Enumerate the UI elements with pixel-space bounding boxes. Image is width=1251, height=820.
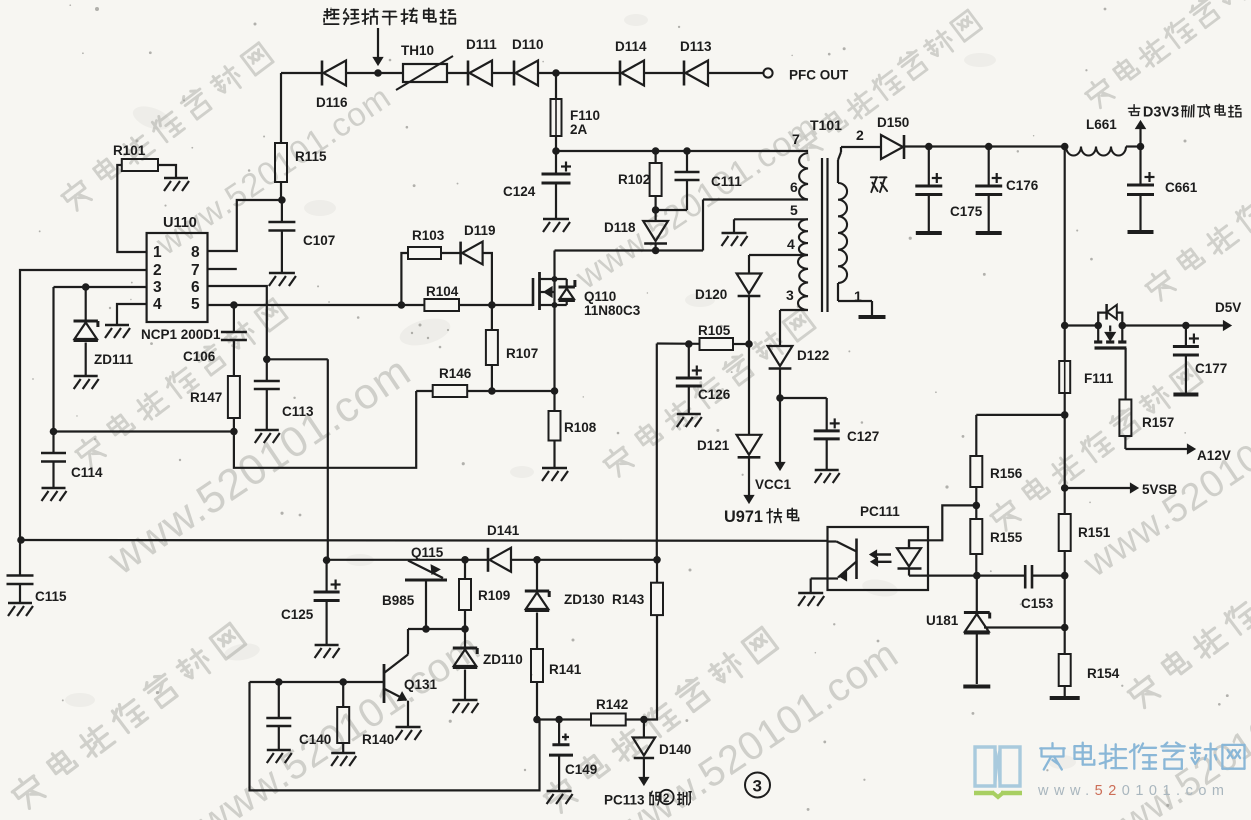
svg-text:D121: D121 [697, 438, 730, 453]
svg-text:C140: C140 [299, 732, 331, 747]
label: dual (CJK) [871, 177, 887, 192]
label: U971 supply (CJK) [724, 508, 799, 526]
wire [640, 615, 657, 723]
wire T101 pin6 lead [703, 200, 808, 251]
resistor R146 [433, 366, 472, 397]
svg-text:R102: R102 [618, 172, 650, 187]
svg-text:R151: R151 [1078, 525, 1111, 540]
resistor R155 [970, 505, 1022, 554]
capacitor C114 [41, 432, 103, 488]
resistor R103 [408, 228, 445, 259]
svg-text:2: 2 [153, 262, 162, 279]
ground [269, 273, 296, 286]
ground [255, 430, 280, 443]
svg-text:D5V: D5V [1215, 300, 1241, 315]
wire [464, 629, 466, 648]
wire [416, 390, 433, 392]
wire [464, 670, 466, 700]
svg-text:VCC1: VCC1 [755, 477, 792, 492]
wire current sense loop [234, 391, 416, 468]
ground [396, 727, 422, 740]
svg-text:www.520101.com: www.520101.com [1037, 783, 1229, 799]
wire pin6 branch [208, 286, 271, 363]
wire aux rail [657, 340, 749, 348]
wire and node [973, 487, 981, 509]
wire VCC1 arrow [755, 398, 792, 492]
ground [164, 178, 189, 191]
svg-text:Q110: Q110 [584, 289, 616, 304]
svg-text:C127: C127 [847, 429, 879, 444]
wire pin3 branch [54, 283, 147, 291]
ground [677, 414, 702, 427]
wire and node Q115 line [323, 556, 488, 564]
wire and node [973, 554, 981, 579]
svg-text:2: 2 [856, 127, 864, 143]
wire R103 branch up [401, 253, 408, 305]
wire Q131 loop to R141 node [250, 682, 540, 790]
svg-text:R155: R155 [990, 530, 1023, 545]
fuse F111 [1059, 361, 1114, 393]
diode D120 [695, 274, 761, 348]
svg-text:R108: R108 [564, 420, 597, 435]
ground [543, 219, 570, 232]
transistor Q110 11N80C3 MOSFET [533, 251, 641, 392]
svg-text:PFC OUT: PFC OUT [789, 68, 849, 83]
resistor R105 [698, 323, 733, 350]
svg-text:U971: U971 [724, 508, 763, 526]
svg-text:11N80C3: 11N80C3 [584, 303, 641, 318]
wire and node [1061, 322, 1099, 330]
svg-text:D113: D113 [680, 39, 712, 54]
svg-text:C175: C175 [950, 204, 983, 219]
capacitor C111 [656, 151, 743, 210]
wire pin5 gate drive line [208, 301, 425, 309]
diode D141 [487, 523, 520, 572]
wire pin4 to ground [117, 304, 147, 324]
diode D110 [512, 37, 544, 86]
svg-text:R103: R103 [412, 228, 445, 243]
resistor R140 [337, 682, 394, 752]
terminal PFC OUT [763, 68, 849, 83]
svg-text:7: 7 [792, 131, 800, 147]
wire [280, 73, 282, 143]
svg-text:4: 4 [787, 236, 795, 252]
diode D111 [466, 37, 497, 86]
svg-text:D141: D141 [487, 523, 520, 538]
svg-text:1: 1 [854, 288, 862, 304]
capacitor C140 [266, 682, 331, 749]
op-amp U110 NCP1200D1 controller [141, 215, 221, 342]
resistor R104 [424, 284, 459, 311]
ground [453, 700, 479, 713]
svg-text:R109: R109 [478, 588, 510, 603]
svg-text:ZD111: ZD111 [94, 352, 134, 367]
diode D114 [615, 39, 647, 86]
svg-text:C125: C125 [281, 607, 314, 622]
svg-text:C107: C107 [303, 233, 335, 248]
capacitor C661 [1127, 147, 1198, 233]
diode D150 [877, 115, 909, 159]
ground [798, 593, 824, 606]
wire pin6 node down to C125/Q115 [267, 359, 328, 560]
wire main 5V feed down [1064, 147, 1066, 326]
svg-text:1: 1 [153, 244, 162, 261]
capacitor C153 [1021, 565, 1054, 611]
wire [85, 343, 87, 376]
svg-text:B985: B985 [382, 593, 415, 608]
svg-text:C114: C114 [71, 465, 103, 480]
wire [558, 720, 560, 745]
ground [331, 753, 356, 766]
resistor R142 [591, 697, 628, 726]
wire PC111 LED cathode to column [928, 574, 1065, 576]
arrow into input line [373, 28, 382, 65]
label: input anti-interference circuit (CJK) [324, 8, 455, 24]
svg-text:PC113: PC113 [604, 793, 645, 808]
wire secondary output rail [904, 143, 1068, 151]
svg-text:C124: C124 [503, 184, 536, 199]
svg-text:4: 4 [153, 296, 162, 313]
diode D118 [604, 210, 668, 254]
wire [511, 556, 661, 564]
resistor R141 [531, 613, 582, 720]
wire pin7 stub [208, 268, 237, 270]
wire U181 ref to column [984, 626, 1065, 628]
ground [267, 750, 292, 763]
wire and junction [346, 69, 403, 77]
diode D140 [633, 738, 692, 759]
resistor R154 [1050, 654, 1120, 698]
wire [85, 287, 87, 321]
svg-text:R141: R141 [549, 662, 582, 677]
svg-text:C177: C177 [1195, 361, 1227, 376]
svg-text:D140: D140 [659, 742, 691, 757]
wire [536, 560, 538, 591]
svg-text:F111: F111 [1084, 371, 1114, 386]
svg-text:R143: R143 [612, 592, 645, 607]
wire arrow to PC113 pin2 [639, 758, 648, 785]
wire [1061, 415, 1069, 492]
capacitor C124 [503, 151, 571, 218]
inductor L661 [1066, 117, 1126, 156]
label: to PC113 pin 2 (CJK) [604, 790, 691, 808]
svg-text:U110: U110 [163, 215, 197, 231]
wire and ground [963, 634, 990, 687]
page marker 3 [745, 773, 770, 798]
svg-text:3: 3 [753, 777, 762, 796]
diode D113 [680, 39, 712, 86]
wire drain to T101 pin6 branch [555, 249, 704, 251]
svg-text:2A: 2A [570, 122, 588, 137]
wire and nodes [408, 625, 469, 633]
resistor R151 [1059, 488, 1111, 576]
svg-text:NCP1 200D1: NCP1 200D1 [141, 327, 221, 342]
svg-text:5: 5 [790, 202, 798, 218]
wire [1061, 326, 1069, 419]
wire [483, 253, 492, 305]
svg-text:ZD110: ZD110 [483, 652, 523, 667]
wire [976, 576, 978, 613]
svg-text:R101: R101 [113, 143, 146, 158]
svg-text:TH10: TH10 [401, 43, 434, 58]
label: to D3V3 forming circuit (CJK) [1128, 104, 1241, 120]
svg-text:C115: C115 [35, 589, 67, 604]
wire [492, 72, 514, 74]
wire [447, 72, 468, 74]
resistor R115 [275, 143, 327, 182]
resistor R102 [618, 151, 662, 214]
wire [158, 165, 176, 177]
zener ZD110 [453, 648, 523, 668]
svg-text:3: 3 [153, 279, 162, 296]
wire to Q110 gate [459, 301, 533, 309]
svg-text:C126: C126 [698, 387, 731, 402]
svg-text:3: 3 [786, 287, 794, 303]
zener ZD130 [525, 591, 605, 611]
svg-text:D3V3: D3V3 [1143, 105, 1179, 121]
arrow to D3V3 circuit [1136, 121, 1145, 147]
wire primary supply to T101 pin7 [556, 147, 808, 155]
wire pin2 to feedback rail [20, 270, 147, 540]
wire [626, 718, 644, 720]
svg-text:8: 8 [191, 244, 200, 261]
svg-text:R140: R140 [362, 732, 394, 747]
svg-text:D119: D119 [464, 223, 496, 238]
svg-text:D114: D114 [615, 39, 647, 54]
capacitor C106 [183, 305, 247, 364]
thermistor TH10 [396, 43, 453, 90]
capacitor C149 [549, 734, 597, 791]
svg-text:C113: C113 [282, 404, 314, 419]
wire T101 pin5 to ground [734, 219, 808, 232]
capacitor C176 [975, 147, 1039, 234]
optocoupler PC111 [811, 504, 928, 592]
wire pin8 to R115/C107 node [208, 200, 282, 251]
wire [644, 72, 684, 74]
capacitor C175 [915, 147, 982, 234]
svg-text:5VSB: 5VSB [1142, 482, 1178, 497]
zener ZD111 [74, 321, 134, 367]
svg-text:Q131: Q131 [404, 677, 438, 692]
wire [748, 344, 750, 435]
wire [467, 387, 558, 395]
svg-text:L661: L661 [1086, 117, 1117, 132]
wire 5VSB arrow [1065, 482, 1178, 497]
ground [42, 488, 67, 501]
resistor R109 [459, 556, 510, 629]
svg-text:D116: D116 [316, 95, 348, 110]
capacitor C107 [268, 200, 335, 272]
capacitor C177 [1173, 326, 1227, 395]
ground [542, 468, 568, 481]
diode D121 [697, 435, 761, 458]
wire feedback column [1061, 572, 1069, 654]
svg-text:R142: R142 [596, 697, 628, 712]
svg-text:6: 6 [191, 279, 200, 296]
svg-text:R105: R105 [698, 323, 731, 338]
svg-text:A12V: A12V [1197, 448, 1231, 463]
svg-text:R156: R156 [990, 466, 1023, 481]
svg-text:D122: D122 [797, 348, 829, 363]
svg-text:F110: F110 [570, 108, 600, 123]
ground [315, 645, 340, 658]
wire aux to feedback line [656, 344, 658, 560]
wire [441, 252, 461, 254]
transistor Q131 [384, 629, 438, 726]
MOSFET sync rectifier (D5V switch) [1094, 304, 1126, 400]
svg-text:C106: C106 [183, 349, 216, 364]
wire pin1 to R101 [117, 165, 146, 252]
wire and node [1126, 143, 1144, 151]
svg-text:7: 7 [191, 262, 200, 279]
ground [547, 791, 573, 804]
svg-text:D111: D111 [466, 37, 497, 52]
capacitor C126 [676, 344, 731, 413]
ground [815, 470, 840, 483]
wire [555, 73, 557, 99]
wire [281, 72, 322, 74]
diode D119 [461, 223, 496, 264]
svg-text:C111: C111 [711, 174, 742, 189]
resistor R101 [113, 143, 158, 171]
fuse F110 2A [551, 99, 601, 137]
svg-text:C149: C149 [565, 762, 597, 777]
svg-text:PC111: PC111 [860, 504, 900, 519]
wire and node [278, 182, 286, 204]
svg-text:U181: U181 [926, 613, 959, 628]
shunt regulator U181 [926, 613, 990, 634]
svg-text:C661: C661 [1165, 180, 1198, 195]
resistor R108 [549, 391, 597, 467]
ground [722, 233, 748, 246]
diode D116 [316, 61, 348, 111]
svg-text:ZD130: ZD130 [564, 592, 605, 607]
wire Q131 base line [250, 678, 385, 686]
transformer T101 (pins 7,6,5,4,3 primary / 2,1 secondary) [786, 117, 886, 317]
svg-text:5: 5 [191, 296, 200, 313]
wire [643, 720, 645, 738]
ground [8, 603, 33, 616]
wire A12V arrow [1125, 436, 1230, 463]
wire and nodes [533, 716, 591, 724]
resistor R107 [486, 305, 538, 395]
svg-text:R107: R107 [506, 346, 538, 361]
wire [708, 72, 764, 74]
wire D5V output arrow [1122, 300, 1241, 330]
resistor R143 [612, 560, 663, 615]
svg-text:2: 2 [663, 793, 669, 805]
svg-text:R104: R104 [426, 284, 459, 299]
transistor Q115 B985 [382, 545, 447, 629]
wire to C127 [780, 398, 827, 431]
svg-text:T101: T101 [810, 117, 842, 133]
capacitor C113 [254, 359, 314, 429]
diode D122 [768, 346, 830, 402]
wire [52, 287, 54, 432]
svg-text:D150: D150 [877, 115, 909, 130]
svg-text:6: 6 [790, 179, 798, 195]
capacitor C125 [281, 560, 341, 644]
wire and junction to F110 [538, 69, 620, 77]
svg-text:R157: R157 [1142, 415, 1174, 430]
svg-text:R115: R115 [295, 149, 327, 164]
wire and node [552, 136, 560, 155]
svg-text:D110: D110 [512, 37, 544, 52]
capacitor C115 [7, 540, 68, 604]
svg-text:C176: C176 [1006, 178, 1039, 193]
wire R156 top feed [976, 414, 1064, 416]
wire Vfb lower link [50, 428, 234, 436]
svg-text:R146: R146 [439, 366, 472, 381]
wire T101 pin4 to D120 [749, 255, 808, 274]
wire arrow U971 supply [744, 457, 753, 503]
wire long feedback rail (U110 pin2 to PC111) [17, 536, 827, 544]
wire to PC111 LED anode [909, 505, 976, 548]
resistor R157 [1119, 400, 1174, 437]
resistor R156 [970, 415, 1022, 487]
svg-text:R154: R154 [1087, 666, 1120, 681]
capacitor C127 [814, 418, 880, 469]
svg-text:D120: D120 [695, 287, 727, 302]
svg-text:Q115: Q115 [411, 545, 444, 560]
svg-text:R147: R147 [190, 390, 222, 405]
ground [74, 376, 99, 389]
wire T101 pin3 to D122 [780, 310, 808, 346]
resistor R147 [190, 340, 240, 435]
svg-text:D118: D118 [604, 220, 636, 235]
ground [105, 325, 130, 338]
svg-text:C153: C153 [1021, 596, 1054, 611]
